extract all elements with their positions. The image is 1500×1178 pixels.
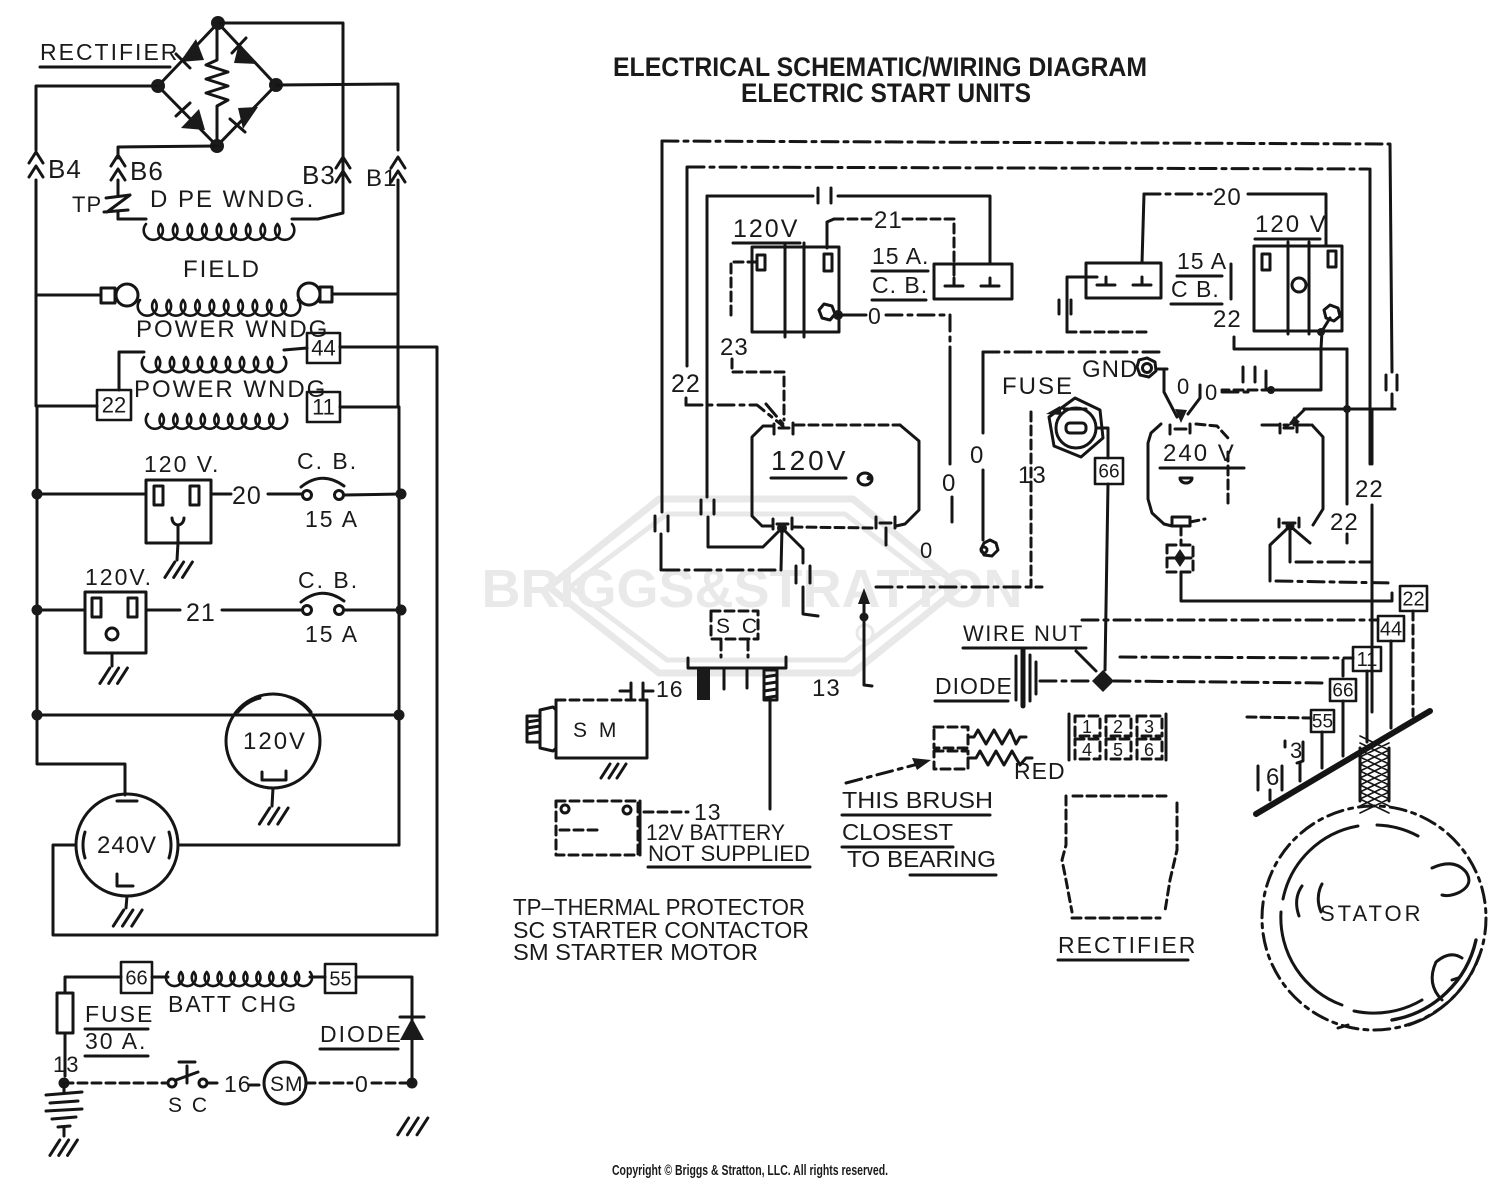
terminal box 44 stator: [1378, 616, 1404, 641]
svg-text:22: 22: [1355, 476, 1384, 503]
svg-text:FIELD: FIELD: [183, 256, 261, 283]
svg-text:22: 22: [1213, 306, 1242, 333]
wire row3: [37, 714, 399, 717]
stator lead 6: [1269, 790, 1272, 800]
junction row1 right: [396, 489, 407, 500]
terminal B6: [111, 155, 164, 186]
wires into 240V funnel: [1164, 371, 1250, 423]
svg-text:STATOR: STATOR: [1320, 901, 1424, 926]
dash-dot feed to 44: [1082, 619, 1378, 622]
terminal box 66 stator: [1330, 679, 1356, 701]
wire batt to SC: [64, 1082, 166, 1085]
starter contactor SC wiring: [688, 611, 786, 700]
svg-text:RED: RED: [1014, 758, 1066, 784]
wire bridge right to B1 line: [276, 84, 398, 150]
svg-text:16: 16: [656, 676, 684, 702]
receptacle small lower right: [1262, 410, 1323, 527]
wire 21 to receptacle: [827, 207, 954, 278]
terminal box 44: [307, 333, 340, 363]
wire nut diamond: [1092, 670, 1114, 692]
label 120V receptacle wiring left: [733, 215, 800, 243]
svg-text:15 A: 15 A: [305, 621, 359, 647]
label THIS BRUSH CLOSEST TO BEARING: [842, 787, 996, 875]
circuit breaker 15A CB center: [872, 243, 1012, 300]
svg-text:B4: B4: [48, 154, 82, 184]
outer frame wire top: [662, 141, 1389, 144]
svg-text:GND: GND: [1082, 356, 1138, 383]
wire from bottom contact down: [781, 528, 782, 570]
label WIRE NUT: [963, 621, 1096, 671]
left bus wire: [37, 406, 125, 795]
wire 21: [146, 599, 302, 627]
svg-text:6: 6: [1144, 740, 1154, 760]
wire row2 right: [344, 609, 401, 612]
circuit breaker CB 15A row1: [297, 448, 359, 532]
junction 120V box bottom contact: [777, 523, 787, 533]
inner frame wire right: [1369, 169, 1372, 464]
power winding 1: [119, 316, 329, 390]
wire SM to diode node: [306, 1071, 412, 1097]
ground lug GND: [1082, 356, 1167, 383]
label RECTIFIER wiring: [1058, 932, 1197, 960]
stator lead 44: [1390, 641, 1393, 728]
svg-text:240V: 240V: [97, 832, 157, 859]
junction row2 right: [396, 605, 407, 616]
svg-text:TO BEARING: TO BEARING: [847, 846, 996, 872]
svg-text:0: 0: [942, 470, 956, 497]
svg-text:11: 11: [312, 395, 335, 420]
receptacle 240V twist-lock: [76, 794, 178, 896]
svg-text:13: 13: [53, 1052, 79, 1077]
receptacle 120V wiring right: [1254, 242, 1342, 334]
dash-dot feed to 11: [1120, 657, 1353, 676]
svg-text:120V: 120V: [243, 728, 307, 755]
wires from small receptacle: [1270, 526, 1392, 583]
terminal box 22 stator: [1400, 586, 1427, 611]
svg-text:SM: SM: [270, 1073, 304, 1096]
wire left inner vertical: [701, 196, 782, 547]
svg-text:66: 66: [1098, 462, 1119, 483]
svg-text:Copyright © Briggs & Stratton,: Copyright © Briggs & Stratton, LLC. All …: [612, 1163, 888, 1178]
stator lead 11: [1366, 671, 1369, 742]
rectifier bridge: [158, 23, 276, 146]
title: [613, 52, 1147, 108]
svg-text:NOT SUPPLIED: NOT SUPPLIED: [648, 841, 810, 866]
stator lead 3: [1299, 763, 1302, 781]
svg-text:20: 20: [1213, 184, 1242, 211]
stator lead right 22b: [1330, 349, 1359, 545]
wire box11 to right bus: [340, 406, 399, 409]
svg-text:3: 3: [1144, 717, 1154, 737]
receptacle 120V wiring left duplex: [752, 243, 839, 337]
stator lead 66: [1342, 701, 1345, 756]
svg-text:SM STARTER MOTOR: SM STARTER MOTOR: [513, 939, 758, 965]
legend TP SC SM: [513, 894, 809, 965]
junction row1 left: [32, 489, 43, 500]
heavy cut diagonal: [1256, 711, 1430, 814]
svg-text:C B.: C B.: [1171, 276, 1220, 302]
svg-text:0: 0: [1205, 380, 1218, 405]
svg-text:22: 22: [102, 393, 126, 418]
wire row2 left: [37, 609, 85, 612]
wire 13 dashed vertical: [1018, 412, 1047, 587]
terminal B1: [366, 157, 405, 192]
wire box44 to right bus: [53, 347, 437, 935]
svg-text:120V: 120V: [733, 215, 799, 243]
wire row1 right: [344, 494, 401, 495]
ground diode: [398, 1118, 428, 1135]
wire 16 to SM: [208, 1071, 262, 1097]
svg-text:66: 66: [1332, 681, 1353, 702]
svg-text:0: 0: [970, 442, 984, 469]
wire SC to battery 13: [769, 700, 772, 809]
svg-text:15 A: 15 A: [305, 506, 359, 532]
receptacle 120V big twist-lock wiring: [752, 404, 919, 529]
Briggs & Stratton watermark logo: [481, 499, 1022, 673]
terminal box 66 wiring: [1095, 458, 1123, 484]
wire 0 vertical to end: [920, 360, 956, 563]
svg-text:0: 0: [355, 1071, 369, 1097]
svg-text:TP: TP: [72, 192, 102, 217]
terminal box 55 batt: [325, 964, 356, 993]
wire box22 to left bus: [37, 405, 97, 408]
svg-text:C. B.: C. B.: [872, 272, 928, 298]
svg-text:55: 55: [1312, 712, 1333, 733]
svg-text:B6: B6: [130, 156, 164, 186]
wire 13 arrow to dash line: [812, 588, 872, 702]
svg-text:44: 44: [1380, 619, 1402, 641]
svg-text:2: 2: [1113, 717, 1123, 737]
connector 16: [620, 676, 684, 702]
receptacle 120V row2: [85, 592, 146, 653]
svg-text:0: 0: [920, 538, 933, 563]
svg-text:3: 3: [1290, 738, 1303, 763]
junction diode bottom: [407, 1078, 418, 1089]
svg-text:21: 21: [186, 599, 216, 627]
field winding: [36, 180, 398, 407]
wire bridge top to B3 line: [218, 23, 343, 219]
battery 12V: [556, 799, 810, 867]
ground SM: [601, 764, 626, 778]
battery plates: [46, 1083, 82, 1155]
right bus wire: [398, 407, 401, 845]
svg-text:15 A.: 15 A.: [872, 243, 929, 269]
dash feed to 55: [1247, 717, 1311, 718]
terminal B3: [302, 157, 350, 190]
svg-text:66: 66: [125, 968, 147, 990]
svg-text:13: 13: [1018, 462, 1047, 489]
diode wiring symbol: [935, 650, 1036, 706]
svg-text:55: 55: [329, 969, 351, 991]
svg-text:4: 4: [1082, 740, 1092, 760]
svg-text:D PE WNDG.: D PE WNDG.: [150, 186, 315, 213]
terminal box 11 dashed below 240V: [1167, 526, 1193, 572]
wire box11 to box22 stator: [1181, 572, 1392, 601]
svg-text:WIRE NUT: WIRE NUT: [963, 621, 1084, 646]
ground 240V twist-lock: [113, 896, 142, 926]
terminal box 66 batt: [121, 962, 152, 993]
label FUSE wiring: [1002, 373, 1074, 400]
wire row1 left: [37, 493, 146, 496]
svg-text:30 A.: 30 A.: [85, 1028, 147, 1054]
wire 11 top center: [707, 188, 990, 264]
svg-text:S M: S M: [573, 719, 619, 742]
wire 22 tick: [1213, 264, 1242, 333]
svg-text:13: 13: [812, 675, 841, 702]
DPE winding: [118, 186, 318, 240]
junction small receptacle: [1286, 522, 1295, 531]
label 6 stator: [1258, 764, 1282, 791]
wire horizontal y409: [1304, 405, 1395, 413]
svg-text:BATT CHG: BATT CHG: [168, 991, 298, 1017]
junction batt neg: [59, 1078, 70, 1089]
battery charge winding: [152, 972, 325, 1017]
svg-text:S C: S C: [168, 1094, 209, 1117]
svg-text:20: 20: [232, 482, 262, 510]
stator lead 55: [1321, 732, 1324, 768]
node right of bridge: [269, 78, 283, 92]
svg-text:C. B.: C. B.: [298, 567, 359, 593]
ground receptacle row2: [100, 653, 128, 683]
brush with resistor lower RED: [934, 751, 1066, 784]
svg-text:22: 22: [1330, 509, 1359, 536]
svg-text:120V.: 120V.: [85, 564, 153, 590]
enclosure corner GND box: [970, 352, 1162, 556]
fuse 30A: [57, 977, 154, 1076]
power winding 2: [134, 376, 327, 429]
arrow this brush: [846, 758, 931, 783]
svg-text:15 A: 15 A: [1177, 248, 1227, 274]
dash-dot wire y680 diode to boxes: [1040, 681, 1326, 683]
dash-dot wire y570: [663, 569, 781, 572]
ground 120V twist-lock: [259, 788, 288, 824]
svg-text:1: 1: [1082, 717, 1092, 737]
svg-text:120 V: 120 V: [1255, 211, 1328, 238]
stator lead right 22a: [1355, 409, 1384, 712]
receptacle 120V row1: [146, 480, 211, 543]
svg-text:POWER WNDG: POWER WNDG: [134, 376, 327, 403]
label RECTIFIER: [40, 39, 179, 67]
node top of bridge: [211, 16, 225, 30]
wire 0 below box right contact: [885, 528, 888, 545]
stator: [1262, 806, 1486, 1030]
svg-text:ELECTRIC START UNITS: ELECTRIC START UNITS: [741, 78, 1031, 108]
right CB 15A unit: [1086, 248, 1227, 304]
diode batt charge: [320, 977, 424, 1083]
wire from bottom contact right branch: [782, 528, 818, 616]
svg-text:RECTIFIER: RECTIFIER: [40, 39, 179, 65]
terminal box 22: [97, 390, 131, 420]
svg-text:FUSE: FUSE: [85, 1001, 154, 1027]
wire 240V right to bus: [178, 844, 399, 847]
svg-text:120V: 120V: [771, 445, 848, 476]
thermal protector TP: [36, 180, 130, 406]
inner frame wire top: [688, 167, 1368, 169]
svg-text:120 V.: 120 V.: [144, 451, 220, 477]
junction row3 right: [394, 710, 405, 721]
terminal box 11: [307, 392, 340, 422]
svg-text:DIODE: DIODE: [935, 673, 1013, 699]
wire bridge left to B4 line: [36, 86, 158, 150]
svg-text:22: 22: [671, 370, 701, 398]
label 120 V right: [1255, 211, 1328, 239]
receptacle 240V wiring: [1148, 424, 1244, 526]
svg-text:S C: S C: [716, 615, 760, 638]
outer frame wire left: [655, 141, 668, 570]
rectifier wiring dashed outline: [1062, 796, 1177, 918]
crosshatch sleeve: [1360, 736, 1389, 813]
svg-text:16: 16: [224, 1071, 252, 1097]
terminal B4: [29, 152, 82, 184]
starter motor SM circle: [264, 1062, 306, 1104]
terminal box 11 stator: [1353, 647, 1381, 671]
junction row3 left: [32, 710, 43, 721]
wire 20: [211, 482, 302, 510]
svg-text:B1: B1: [366, 165, 397, 192]
svg-text:0: 0: [868, 303, 882, 329]
wire bridge bottom to B6 line: [118, 146, 217, 158]
svg-text:RECTIFIER: RECTIFIER: [1058, 932, 1197, 958]
svg-text:23: 23: [720, 334, 749, 361]
svg-text:5: 5: [1113, 740, 1123, 760]
label 3 stator: [1285, 738, 1303, 763]
brush with resistor upper: [934, 727, 1026, 748]
outer frame wire right: [1386, 144, 1397, 409]
wire U under right CB: [1059, 277, 1151, 332]
svg-text:21: 21: [874, 207, 903, 234]
inner frame wire left: [671, 167, 783, 426]
svg-text:240 V: 240 V: [1163, 440, 1236, 467]
dash-dot wire y587 to wire nut region: [876, 586, 1042, 589]
ground receptacle row1: [165, 543, 193, 577]
svg-text:POWER WNDG: POWER WNDG: [136, 316, 329, 343]
svg-text:DIODE: DIODE: [320, 1021, 403, 1047]
svg-text:CLOSEST: CLOSEST: [842, 819, 953, 845]
svg-text:FUSE: FUSE: [1002, 373, 1074, 400]
wire 23 to receptacle: [720, 262, 784, 420]
svg-text:0: 0: [1177, 374, 1190, 399]
stator lead 22: [1412, 611, 1415, 716]
junction row2 left: [32, 605, 43, 616]
wire from right receptacle hex down: [1222, 318, 1347, 394]
svg-text:11: 11: [1357, 649, 1378, 671]
receptacle 120V twist-lock: [226, 694, 320, 788]
wire 0 from receptacle hex: [833, 303, 950, 360]
svg-text:THIS BRUSH: THIS BRUSH: [842, 787, 993, 813]
fuse holder hex: [1046, 398, 1103, 457]
node left of bridge: [151, 79, 165, 93]
svg-text:6: 6: [1266, 764, 1280, 791]
node bottom of bridge: [210, 139, 224, 153]
wire 20: [1142, 184, 1326, 263]
wire fuse to box 66 to wire nut: [1096, 428, 1108, 670]
svg-text:C. B.: C. B.: [297, 448, 358, 474]
terminal strip 1-6: [1069, 714, 1166, 760]
starter motor SM wiring: [527, 700, 647, 758]
svg-text:44: 44: [311, 336, 335, 361]
terminal box 55 stator: [1311, 710, 1334, 732]
starter contactor SC switch: [168, 1062, 209, 1117]
circuit breaker CB 15A row2: [298, 567, 359, 647]
svg-text:22: 22: [1402, 589, 1424, 611]
